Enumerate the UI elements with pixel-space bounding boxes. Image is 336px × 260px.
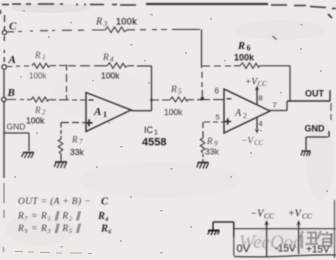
svg-text:R: R — [170, 85, 177, 95]
svg-text:6: 6 — [247, 44, 251, 53]
watermark WeeQoo — [239, 231, 333, 253]
svg-text:C: C — [9, 21, 17, 33]
node A — [2, 65, 6, 69]
svg-text:R: R — [237, 41, 245, 52]
R9 top lead — [202, 122, 204, 138]
svg-text:R: R — [206, 136, 213, 146]
resistor R6 — [240, 63, 260, 69]
svg-text:GND: GND — [305, 124, 326, 134]
resistor R5 — [170, 97, 189, 102]
svg-text:A: A — [234, 108, 242, 119]
wire A to R1 — [6, 65, 29, 68]
svg-text:100k: 100k — [29, 72, 47, 81]
svg-text:R: R — [95, 17, 102, 28]
wire GND to ground — [4, 133, 29, 151]
svg-text:100k: 100k — [26, 116, 45, 126]
0V rail — [234, 228, 336, 230]
svg-text:CC: CC — [302, 211, 313, 220]
svg-text:5: 5 — [178, 88, 182, 96]
svg-text:GND: GND — [7, 122, 26, 132]
svg-text:5: 5 — [216, 113, 220, 122]
A2 minus marker — [227, 98, 232, 100]
svg-text:1: 1 — [42, 54, 46, 62]
wire R2 to A1 inverting input — [50, 99, 86, 101]
ground (right) — [301, 151, 311, 156]
svg-text:R: R — [102, 53, 109, 63]
svg-text:+V: +V — [288, 209, 303, 220]
svg-text:C: C — [101, 197, 109, 208]
wire A1 plus input to R7 — [61, 122, 86, 124]
resistor R3 — [105, 27, 127, 33]
wire GND terminal — [306, 131, 329, 150]
svg-text:OUT: OUT — [305, 89, 325, 99]
svg-text:33k: 33k — [205, 147, 219, 157]
A1 minus marker — [89, 99, 94, 101]
wire R4 to feedback corner — [128, 65, 152, 67]
wire pin5 to R9 — [204, 121, 224, 123]
svg-text:R₆: R₆ — [100, 224, 112, 235]
cell separator right — [234, 229, 332, 256]
wire A2 output — [270, 101, 287, 111]
junction vertical (summing node) — [66, 65, 68, 101]
wire to R4 — [68, 65, 107, 67]
svg-text:R₇ = R₁ ∥ R₂ ∥: R₇ = R₁ ∥ R₂ ∥ — [17, 211, 82, 222]
svg-text:100k: 100k — [101, 71, 120, 81]
A2 plus marker — [225, 118, 232, 125]
power: ground to 0V rail — [213, 222, 234, 237]
svg-text:R₄: R₄ — [97, 211, 109, 222]
left input bus wire — [4, 15, 5, 252]
svg-text:6: 6 — [215, 87, 220, 96]
svg-text:2: 2 — [243, 111, 247, 120]
op-amp A2 — [224, 89, 270, 133]
svg-text:R: R — [34, 50, 41, 60]
wire to R5 — [153, 99, 170, 101]
resistor R2 — [31, 97, 50, 102]
svg-text:OUT = (A + B) −: OUT = (A + B) − — [18, 196, 91, 207]
ground (R9) — [197, 163, 209, 169]
R7 bottom lead — [60, 154, 62, 161]
svg-text:A: A — [8, 54, 16, 66]
svg-text:A: A — [93, 106, 101, 118]
svg-text:4: 4 — [110, 56, 114, 64]
svg-text:100k: 100k — [116, 17, 137, 27]
wire C to R3 — [7, 30, 105, 32]
svg-text:−V: −V — [241, 137, 254, 147]
resistor R7 (vertical) — [58, 139, 63, 154]
resistor R4 — [107, 63, 128, 69]
svg-text:7: 7 — [79, 138, 83, 146]
wire corner down to node 6 — [201, 29, 204, 97]
wire R6 left — [202, 65, 240, 67]
svg-text:4: 4 — [259, 119, 263, 128]
svg-text:IC: IC — [144, 125, 154, 135]
svg-text:WeeQoo: WeeQoo — [239, 232, 303, 253]
resistor R1 — [32, 63, 51, 68]
svg-text:1: 1 — [154, 130, 158, 137]
svg-text:CC: CC — [258, 80, 268, 88]
R7 top lead — [60, 123, 62, 140]
wire R3 to corner — [127, 28, 200, 30]
svg-text:33k: 33k — [70, 147, 84, 157]
wire B to R2 — [6, 99, 31, 101]
node C — [3, 31, 7, 35]
wire R6 right to output — [260, 66, 290, 101]
wire R5 to node 6 — [189, 99, 202, 101]
svg-text:R₉ = R₃ ∥ R₅ ∥: R₉ = R₃ ∥ R₅ ∥ — [17, 223, 82, 234]
wire OUT — [287, 90, 330, 101]
svg-text:3: 3 — [103, 19, 108, 28]
right edge stray mark — [328, 14, 332, 18]
cell bottom border — [234, 255, 336, 257]
wire R1 to junction — [51, 65, 66, 67]
ground (power) — [208, 231, 220, 236]
resistor R9 (vertical) — [200, 138, 205, 153]
cell separator / -Vcc arrow — [266, 224, 268, 257]
svg-text:CC: CC — [264, 211, 275, 220]
wire A1 output — [131, 110, 152, 112]
svg-text:8: 8 — [259, 94, 263, 103]
svg-text:B: B — [7, 87, 15, 99]
svg-text:7: 7 — [273, 101, 277, 110]
bottom edge faint dashes — [15, 252, 92, 254]
junction output node — [150, 99, 153, 102]
A1 plus marker — [86, 119, 93, 126]
svg-text:4558: 4558 — [142, 137, 166, 149]
right edge marks — [331, 103, 335, 258]
svg-text:100k: 100k — [164, 107, 183, 117]
pin4 -Vcc arrow — [256, 118, 258, 130]
node B — [2, 98, 6, 102]
svg-text:R: R — [71, 135, 78, 145]
feedback vertical to A1 output — [151, 66, 153, 111]
top scan border dashes — [2, 4, 336, 9]
pin8 +Vcc arrow — [256, 89, 258, 105]
op-amp A1 — [86, 93, 131, 132]
svg-text:100k: 100k — [234, 53, 255, 63]
R9 bottom lead — [202, 154, 204, 162]
cell separator / +Vcc arrow — [298, 224, 300, 254]
svg-text:R: R — [34, 105, 41, 115]
svg-text:1: 1 — [103, 110, 107, 119]
svg-text:+V: +V — [245, 78, 258, 88]
ground (R7) — [54, 162, 67, 168]
stray mark — [273, 36, 277, 40]
wire node to A2 pin6 — [204, 99, 224, 101]
watermark hanzi 维库 — [299, 231, 334, 249]
junction dot node 6 — [201, 97, 205, 101]
ground symbol (GND rail) — [22, 153, 35, 159]
svg-text:CC: CC — [254, 139, 264, 147]
